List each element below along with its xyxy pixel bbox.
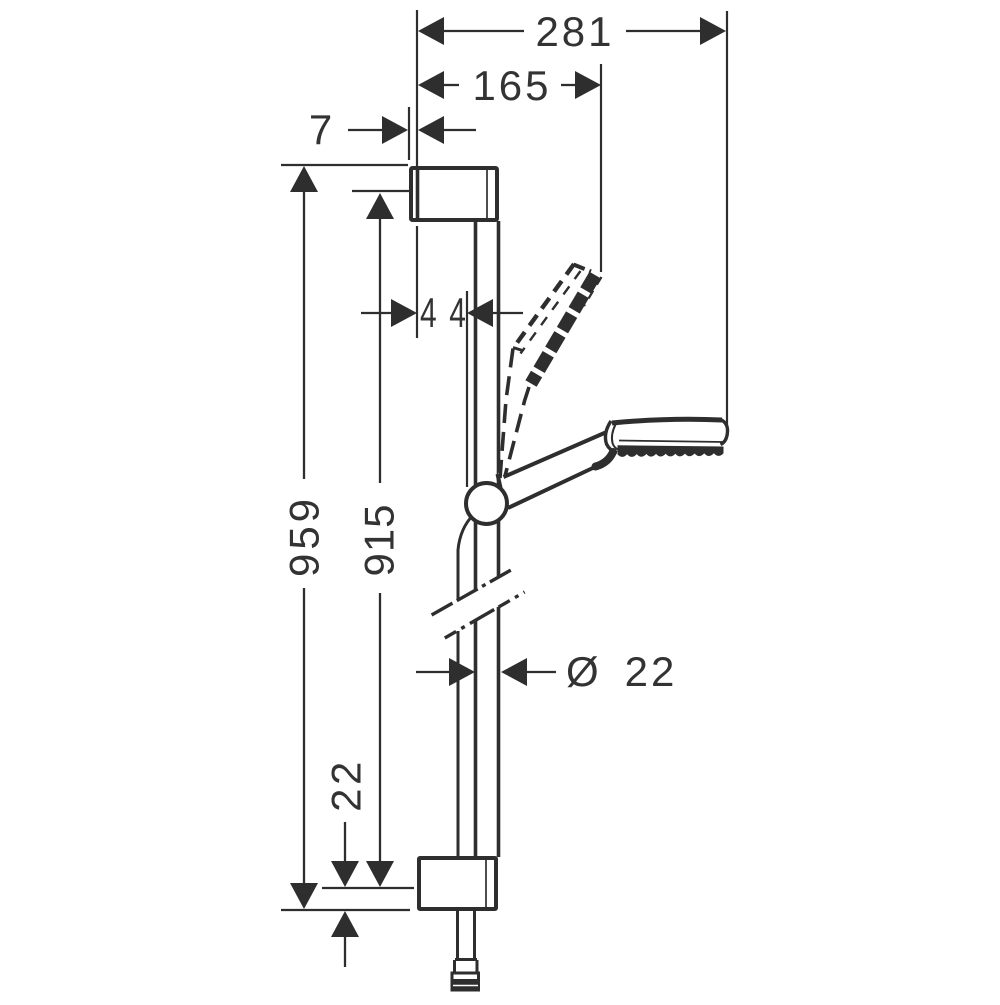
- dimension 22 bottom arrow: [331, 911, 359, 937]
- extension line y888: [322, 887, 414, 889]
- dimension 281 line: [443, 30, 524, 32]
- head left cap: [605, 421, 617, 453]
- extension line x601: [600, 64, 602, 272]
- svg-text:4 4: 4 4: [420, 289, 468, 336]
- dimension 281 right arrow: [700, 17, 726, 45]
- bar break marks: [432, 570, 525, 638]
- extension line x409: [408, 107, 410, 160]
- extension line x727: [726, 11, 728, 434]
- dimension 959 line: [303, 191, 305, 479]
- head right cap: [721, 420, 728, 445]
- hand shower dashed position: [500, 264, 602, 478]
- dimension 915 top arrow: [366, 193, 394, 219]
- dashed handle right edge: [505, 387, 529, 476]
- extension line y165: [281, 164, 408, 166]
- dimension 7 right arrow: [418, 116, 444, 144]
- hand shower head solid: [596, 418, 728, 466]
- dimension 165 line: [443, 84, 459, 86]
- dimension 915 line: [379, 218, 381, 483]
- svg-text:959: 959: [281, 495, 328, 577]
- dashed handle left edge: [500, 349, 513, 479]
- dimension 7 right stem: [443, 129, 476, 131]
- dashed head right edge: [584, 277, 602, 306]
- dimension 7 left arrow: [382, 116, 408, 144]
- dimension dia22 right stem: [526, 671, 556, 673]
- dimension 44 left arrow: [391, 299, 417, 327]
- hose collar: [455, 958, 477, 961]
- dimension 22 line bottom: [344, 936, 346, 967]
- dimension 44 right stem: [492, 312, 523, 314]
- top bracket: [411, 167, 497, 221]
- dimension 44 right arrow: [467, 299, 493, 327]
- hose nut: [452, 973, 479, 990]
- dimension texts: [281, 8, 678, 812]
- svg-text:915: 915: [356, 503, 403, 576]
- dimension dia22 right arrow: [501, 658, 527, 686]
- dimension 959 bottom arrow: [290, 883, 318, 909]
- dimension 44 left stem: [361, 312, 392, 314]
- extension line x467: [466, 291, 468, 487]
- head top edge: [612, 419, 722, 423]
- dimension 7 left stem: [348, 129, 384, 131]
- dimension dia22 left stem: [416, 671, 450, 673]
- extension line y192: [352, 190, 409, 192]
- bottom bracket: [419, 858, 496, 909]
- dashed head top cap: [574, 265, 592, 272]
- dimension dia22 left arrow: [449, 658, 475, 686]
- extension line y910: [281, 909, 410, 911]
- dimension 281 left arrow: [418, 17, 444, 45]
- svg-text:7: 7: [309, 106, 335, 153]
- dashed head inner line: [521, 271, 581, 354]
- extension line x417 top: [416, 10, 418, 166]
- shower hose: [458, 514, 474, 600]
- head spray band: [617, 445, 723, 457]
- dimension 165 right arrow: [575, 71, 601, 99]
- dimension 22 line top: [344, 822, 346, 862]
- extension line x417 below bracket: [416, 226, 418, 338]
- dashed head left edge: [514, 264, 574, 347]
- svg-text:165: 165: [472, 62, 551, 109]
- wall bar: [474, 221, 478, 589]
- dimension 165 left arrow: [418, 71, 444, 99]
- head face line: [619, 441, 725, 443]
- hand shower handle solid: [498, 429, 609, 511]
- dimension 22 top arrow: [331, 861, 359, 887]
- dimension 915 bottom arrow: [366, 861, 394, 887]
- dashed spray band: [531, 275, 595, 384]
- svg-text:22: 22: [323, 758, 370, 812]
- hose lower section: [452, 911, 479, 991]
- dashed head bottom cap: [513, 348, 523, 351]
- holder pivot circle: [466, 483, 507, 524]
- svg-text:281: 281: [535, 8, 614, 55]
- dimension 959 top arrow: [290, 166, 318, 192]
- handle-head joint: [596, 452, 614, 467]
